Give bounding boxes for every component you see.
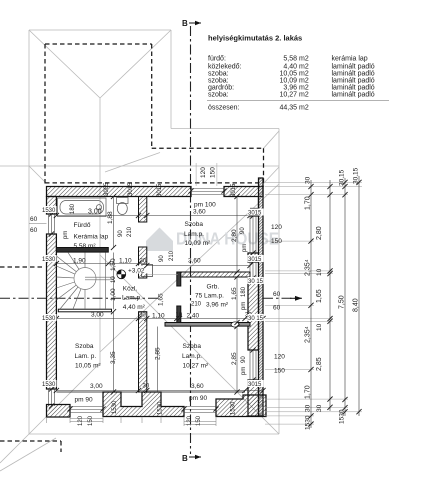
- svg-text:10,09 m²: 10,09 m²: [185, 240, 211, 247]
- wall left mid: [47, 234, 57, 389]
- svg-text:2,85: 2,85: [155, 347, 162, 360]
- middle wall lower (between bottom rooms): [139, 312, 147, 392]
- vdim bath 1,88: [113, 197, 115, 248]
- vdim kozl strip: [113, 253, 115, 310]
- svg-text:m2: m2: [299, 105, 309, 112]
- svg-text:3,60: 3,60: [188, 258, 201, 265]
- wall top (left of window): [47, 187, 192, 197]
- svg-text:Szoba: Szoba: [185, 221, 204, 228]
- svg-text:1,70: 1,70: [305, 385, 312, 399]
- svg-text:pm: pm: [241, 302, 247, 310]
- right wall 3015 labels: [248, 209, 264, 388]
- svg-text:laminált padló: laminált padló: [332, 85, 375, 92]
- neighbour wing dashes: [0, 266, 44, 268]
- svg-text:szoba:: szoba:: [208, 71, 229, 78]
- window left (szoba): [49, 389, 55, 406]
- door jamb detail at middle wall: [142, 265, 153, 277]
- szoba-left top wall: [58, 309, 111, 312]
- svg-text:120: 120: [200, 167, 207, 178]
- svg-text:laminált padló: laminált padló: [332, 78, 375, 85]
- svg-text:2,85: 2,85: [231, 352, 238, 365]
- svg-text:2,80: 2,80: [231, 229, 238, 242]
- STAIRS (winder): [56, 253, 114, 310]
- svg-text:180: 180: [241, 286, 247, 297]
- vdim szobaBR 2,85: [236, 327, 238, 393]
- middle wall upper part2: [139, 247, 147, 278]
- svg-text:1530: 1530: [158, 401, 164, 415]
- svg-text:30: 30: [143, 384, 150, 390]
- svg-text:8,40: 8,40: [353, 298, 360, 312]
- hip SW: [29, 363, 100, 434]
- ROOF (light lines): [0, 30, 279, 471]
- svg-text:30 15: 30 15: [248, 316, 264, 322]
- svg-text:pm: pm: [63, 231, 69, 239]
- step hip: [264, 131, 280, 148]
- svg-text:3,00: 3,00: [90, 383, 103, 390]
- gardrob left wall upper stub: [177, 272, 181, 286]
- wall right seg3: [248, 278, 259, 350]
- svg-text:4,40 m²: 4,40 m²: [123, 304, 146, 311]
- svg-text:1530: 1530: [231, 401, 237, 415]
- svg-text:44,35: 44,35: [279, 105, 297, 112]
- svg-text:szoba:: szoba:: [208, 78, 229, 85]
- svg-text:m2: m2: [299, 71, 309, 78]
- gardrob left wall lower stub: [177, 306, 181, 323]
- dim row bottom y=390.5: [56, 390, 263, 392]
- svg-text:150: 150: [210, 167, 217, 178]
- svg-text:1530: 1530: [42, 316, 56, 322]
- svg-text:m2: m2: [299, 64, 309, 71]
- svg-text:180: 180: [70, 203, 76, 214]
- dim row bath bottom y=263.5: [56, 263, 146, 265]
- svg-text:1,00: 1,00: [110, 288, 117, 301]
- B marker bottom: [182, 454, 201, 463]
- svg-text:3,35: 3,35: [110, 351, 117, 364]
- chain B: [329, 180, 331, 411]
- svg-text:1530: 1530: [42, 382, 56, 388]
- svg-text:10,05 m²: 10,05 m²: [75, 363, 101, 370]
- svg-text:közlekedő:: közlekedő:: [208, 64, 242, 71]
- hip NW: [29, 30, 100, 98]
- footprint dashed outline: [0, 44, 264, 452]
- dim row top rooms y=215.5: [56, 215, 250, 217]
- wall bottom band mid with piers: [103, 392, 184, 417]
- svg-text:10,09: 10,09: [279, 78, 297, 85]
- section line B-B vertical: [190, 26, 192, 454]
- ticks: [54, 194, 266, 395]
- svg-text:B: B: [182, 454, 188, 463]
- svg-text:szoba:: szoba:: [208, 92, 229, 99]
- svg-text:30: 30: [140, 259, 147, 265]
- svg-text:90: 90: [240, 227, 246, 234]
- eave step horizontal: [171, 128, 279, 130]
- ridge: [99, 98, 101, 363]
- eave right: [278, 129, 280, 435]
- svg-text:30,15: 30,15: [339, 169, 346, 186]
- svg-text:3,96 m²: 3,96 m²: [206, 302, 229, 309]
- ROOM TEXTS: [42, 167, 264, 404]
- svg-text:10: 10: [176, 313, 183, 319]
- wall right dense outer strip: [259, 178, 264, 416]
- svg-text:60: 60: [273, 291, 281, 298]
- svg-text:m2: m2: [299, 85, 309, 92]
- svg-text:Szoba: Szoba: [75, 343, 94, 350]
- svg-text:1,90: 1,90: [73, 258, 86, 265]
- window top wall: [191, 189, 224, 195]
- svg-text:Kerámia lap: Kerámia lap: [74, 234, 109, 241]
- svg-text:5,58 m²: 5,58 m²: [74, 243, 97, 250]
- svg-text:+3,02: +3,02: [128, 268, 145, 275]
- svg-text:150: 150: [88, 415, 94, 426]
- svg-text:pm: pm: [241, 367, 247, 375]
- svg-text:Közl.: Közl.: [123, 286, 138, 293]
- svg-text:120: 120: [274, 354, 285, 361]
- hip SE long: [100, 255, 279, 434]
- svg-text:1,10: 1,10: [119, 258, 132, 265]
- svg-text:210: 210: [169, 250, 175, 261]
- gardrob top wall: [178, 272, 250, 277]
- section arrow right: [290, 296, 302, 301]
- wall right seg4: [248, 380, 259, 416]
- svg-text:150: 150: [274, 368, 285, 375]
- svg-text:30: 30: [316, 404, 323, 412]
- left wall 1530 labels: [42, 206, 57, 387]
- svg-text:3015: 3015: [248, 257, 262, 263]
- chain D: [358, 176, 360, 416]
- svg-text:1,88: 1,88: [107, 211, 114, 224]
- svg-text:3015: 3015: [231, 183, 237, 197]
- eave detail: [264, 167, 280, 184]
- svg-text:fürdő:: fürdő:: [208, 56, 226, 63]
- svg-text:60: 60: [30, 216, 38, 223]
- section line horizontal: [0, 297, 302, 299]
- dim row szoba-right top y=265.5: [147, 265, 250, 267]
- svg-text:pm 90: pm 90: [75, 397, 93, 404]
- svg-text:10: 10: [316, 323, 323, 331]
- svg-text:90: 90: [241, 356, 247, 363]
- svg-text:2,80: 2,80: [316, 226, 323, 240]
- svg-text:Szoba: Szoba: [183, 343, 202, 350]
- DIMENSION LINES inside plan: [56, 197, 263, 393]
- svg-text:kerámia lap: kerámia lap: [332, 56, 368, 63]
- svg-text:10: 10: [111, 276, 117, 283]
- eave bottom: [29, 433, 279, 435]
- chain labels rotated: [305, 167, 360, 430]
- bottom corner block SW: [47, 405, 71, 418]
- eave top: [29, 29, 171, 31]
- svg-text:1,10: 1,10: [152, 313, 165, 320]
- svg-text:3,00: 3,00: [88, 209, 102, 216]
- level marker +3,02: [117, 266, 148, 279]
- svg-text:3015: 3015: [157, 183, 163, 197]
- svg-text:150: 150: [271, 238, 282, 245]
- svg-text:30: 30: [305, 404, 312, 412]
- chain C: [344, 178, 346, 416]
- svg-text:2,85: 2,85: [316, 357, 323, 371]
- svg-text:Lam.p.: Lam.p.: [122, 295, 142, 302]
- svg-text:1530: 1530: [305, 415, 312, 430]
- rotated small dims: [63, 203, 248, 426]
- svg-text:4,40: 4,40: [283, 64, 297, 71]
- svg-text:3,60: 3,60: [193, 209, 206, 216]
- INTERIOR WALLS: [56, 197, 250, 393]
- svg-text:Lam.p.: Lam.p.: [182, 353, 202, 360]
- watermark house icon: [146, 228, 173, 252]
- svg-text:3015: 3015: [248, 211, 262, 217]
- windows right wall: [250, 216, 256, 380]
- svg-text:2,35⁴: 2,35⁴: [305, 259, 312, 276]
- lower roof eave line across: [0, 165, 279, 167]
- svg-text:laminált padló: laminált padló: [332, 71, 375, 78]
- svg-text:1,65: 1,65: [231, 287, 238, 300]
- svg-text:210: 210: [191, 302, 202, 308]
- svg-text:helyiségkimutatás 2. lakás: helyiségkimutatás 2. lakás: [208, 34, 302, 43]
- svg-text:laminált padló: laminált padló: [332, 92, 375, 99]
- svg-text:Fürdő: Fürdő: [74, 222, 91, 229]
- svg-text:m2: m2: [299, 56, 309, 63]
- svg-text:1,50: 1,50: [110, 258, 117, 271]
- svg-text:1,70: 1,70: [305, 196, 312, 210]
- svg-text:pm 100: pm 100: [194, 202, 216, 209]
- svg-text:Lam. p.: Lam. p.: [75, 353, 97, 360]
- svg-text:laminált padló: laminált padló: [332, 64, 375, 71]
- svg-text:gardrób:: gardrób:: [208, 85, 234, 92]
- dim lines under bottom windows: [47, 417, 217, 427]
- valley: [100, 184, 279, 352]
- dim row middle y=318.5: [56, 318, 263, 320]
- FIXTURES: [58, 198, 129, 217]
- wall left upper: [47, 197, 57, 215]
- svg-text:3005: 3005: [104, 182, 110, 196]
- svg-text:30: 30: [139, 313, 146, 319]
- left margin dims: [30, 216, 38, 234]
- svg-text:1530: 1530: [112, 400, 118, 414]
- svg-text:75 Lam.p.: 75 Lam.p.: [195, 293, 224, 300]
- hip NE: [100, 30, 171, 98]
- svg-text:1,65: 1,65: [316, 289, 323, 303]
- bottom inner face lines: [56, 391, 138, 393]
- svg-text:30: 30: [305, 176, 312, 184]
- svg-text:90: 90: [118, 230, 124, 237]
- wall top (right of window): [224, 187, 263, 197]
- EXTERIOR WALLS: [47, 178, 267, 417]
- B marker top: [182, 19, 201, 28]
- svg-text:7,50: 7,50: [339, 295, 346, 309]
- svg-text:90: 90: [159, 255, 165, 262]
- right margin window dims: [271, 224, 285, 375]
- column ellipse on wall: [231, 322, 239, 327]
- vdim szobaTR 2,80: [236, 197, 238, 273]
- vdim grb 1,65: [236, 277, 238, 323]
- WATERMARK: [146, 228, 279, 252]
- bathtub: [58, 198, 107, 217]
- svg-text:3,96: 3,96: [283, 85, 297, 92]
- svg-text:Lam.p.: Lam.p.: [184, 231, 204, 238]
- svg-text:pm: pm: [242, 244, 248, 252]
- svg-text:120: 120: [271, 224, 282, 231]
- wall right seg1: [251, 209, 259, 217]
- svg-text:1530: 1530: [339, 409, 346, 424]
- svg-text:B: B: [182, 19, 188, 28]
- svg-text:3015: 3015: [128, 182, 134, 196]
- svg-text:10,27: 10,27: [279, 92, 297, 99]
- vdim szobaBL 3,35: [113, 312, 115, 392]
- svg-text:pm 90: pm 90: [189, 395, 207, 402]
- svg-text:Grb.: Grb.: [207, 284, 220, 291]
- svg-text:30 15: 30 15: [248, 279, 264, 285]
- chain A: [310, 180, 312, 428]
- eave right upper wing: [170, 30, 172, 129]
- svg-text:2,35⁴: 2,35⁴: [305, 326, 312, 343]
- wall right seg2: [248, 253, 259, 262]
- window left (bath): [49, 214, 55, 234]
- svg-text:10: 10: [316, 268, 323, 276]
- gutter SW extension: [0, 434, 29, 463]
- svg-text:3,00: 3,00: [91, 312, 104, 319]
- svg-text:1,65: 1,65: [158, 293, 165, 306]
- svg-text:1530: 1530: [42, 208, 56, 214]
- bath bottom wall: [56, 248, 108, 253]
- window edge ticks: [49, 188, 256, 411]
- svg-text:10,05: 10,05: [279, 71, 297, 78]
- svg-text:120: 120: [78, 415, 84, 426]
- vdim szobaBR left 2,85: [157, 327, 159, 393]
- svg-text:3015: 3015: [248, 382, 262, 388]
- ROOM TABLE: [207, 34, 389, 112]
- szoba-right top wall: [165, 323, 250, 327]
- svg-text:60: 60: [273, 305, 281, 312]
- extension lines right margin: [265, 182, 362, 424]
- svg-text:60: 60: [30, 227, 38, 234]
- windows bottom wall: [70, 407, 216, 413]
- toilet: [117, 198, 129, 204]
- svg-text:210: 210: [127, 226, 133, 237]
- wall bottom band right: [216, 395, 266, 417]
- svg-text:m2: m2: [299, 78, 309, 85]
- svg-text:2,40: 2,40: [187, 313, 200, 320]
- svg-text:30,15: 30,15: [353, 167, 360, 184]
- eave left: [28, 30, 30, 434]
- middle wall upper (bath/szoba): [139, 197, 147, 223]
- svg-text:10,27 m²: 10,27 m²: [183, 363, 209, 370]
- right dimension chains: [311, 176, 359, 428]
- svg-text:m2: m2: [299, 92, 309, 99]
- svg-text:1530: 1530: [42, 257, 56, 263]
- svg-text:3,60: 3,60: [191, 383, 204, 390]
- svg-text:összesen:: összesen:: [208, 105, 240, 112]
- svg-text:5,58: 5,58: [283, 56, 297, 63]
